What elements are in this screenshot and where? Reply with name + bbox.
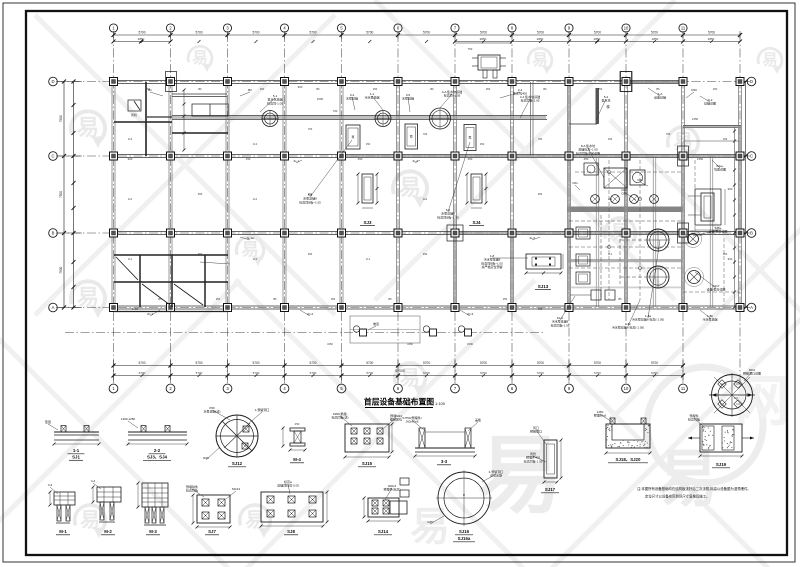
svg-text:定位尺寸以设备实际到货尺寸复核后施工。: 定位尺寸以设备实际到货尺寸复核后施工。 xyxy=(645,494,709,499)
svg-text:JC-1: JC-1 xyxy=(147,312,154,316)
svg-text:C: C xyxy=(750,154,753,159)
axis grid dash-dot lines xyxy=(113,33,115,384)
svg-text:JL1: JL1 xyxy=(366,257,371,261)
svg-text:B2: B2 xyxy=(248,88,252,92)
left axis bubbles xyxy=(49,77,58,86)
svg-text:水泵基础: 水泵基础 xyxy=(346,96,358,101)
detail SJ17 xyxy=(544,440,557,478)
svg-text:易: 易 xyxy=(532,51,547,69)
svg-text:150: 150 xyxy=(480,142,485,146)
svg-text:250: 250 xyxy=(295,422,300,426)
detail M-2 xyxy=(97,487,121,502)
svg-text:5700: 5700 xyxy=(196,371,203,375)
svg-text:1:100: 1:100 xyxy=(435,401,446,406)
svg-text:2850: 2850 xyxy=(138,37,145,41)
svg-text:1350: 1350 xyxy=(697,157,704,161)
svg-text:易: 易 xyxy=(245,509,265,531)
svg-text:标高同板: 标高同板 xyxy=(688,417,700,422)
svg-text:SJ15: SJ15 xyxy=(362,461,373,466)
svg-text:易: 易 xyxy=(241,240,259,260)
detail 2-2 SJ3 SJ4 xyxy=(128,431,187,433)
svg-text:设备 泵房详图: 设备 泵房详图 xyxy=(707,287,726,292)
svg-text:700: 700 xyxy=(698,233,703,237)
svg-text:坑底详图: 坑底详图 xyxy=(714,167,726,172)
svg-text:700: 700 xyxy=(333,109,338,113)
svg-text:B5: B5 xyxy=(388,297,392,301)
svg-text:900: 900 xyxy=(128,157,133,161)
protrusion pad above top edge xyxy=(478,55,500,70)
svg-text:标高同B板~1.05: 标高同B板~1.05 xyxy=(299,199,321,204)
svg-text:预留洞口: 预留洞口 xyxy=(530,429,542,434)
svg-text:SJ8: SJ8 xyxy=(287,529,295,534)
svg-text:1-预留洞口: 1-预留洞口 xyxy=(255,407,270,412)
svg-text:2850: 2850 xyxy=(594,37,601,41)
svg-text:5700: 5700 xyxy=(309,31,316,35)
svg-text:污水泵基础8 标高(-1.05): 污水泵基础8 标高(-1.05) xyxy=(632,317,664,322)
svg-text:设备 泵房详图: 设备 泵房详图 xyxy=(709,229,728,234)
svg-text:5700: 5700 xyxy=(423,31,430,35)
svg-text:JL2: JL2 xyxy=(253,197,258,201)
svg-text:5700: 5700 xyxy=(252,361,259,365)
svg-text:5700: 5700 xyxy=(594,361,601,365)
svg-text:5700: 5700 xyxy=(651,31,658,35)
svg-text:5700: 5700 xyxy=(594,31,601,35)
svg-text:易: 易 xyxy=(77,115,99,140)
svg-text:750: 750 xyxy=(468,47,473,51)
extra leader labels xyxy=(352,97,355,110)
svg-text:网: 网 xyxy=(734,370,789,432)
svg-text:易: 易 xyxy=(410,505,450,549)
detail SJ18 SJ20 xyxy=(606,424,650,448)
detail 3-3 xyxy=(415,447,475,449)
svg-text:C61: C61 xyxy=(572,181,578,185)
svg-text:JL2: JL2 xyxy=(608,197,613,201)
svg-text:标高同板不另说明: 标高同板不另说明 xyxy=(576,150,600,155)
svg-text:150: 150 xyxy=(246,157,251,161)
detail SJ19 xyxy=(700,424,742,452)
svg-text:450: 450 xyxy=(198,252,203,256)
svg-text:泵: 泵 xyxy=(410,134,413,139)
svg-text:1500: 1500 xyxy=(467,342,473,346)
svg-text:4-4: 4-4 xyxy=(48,483,53,487)
svg-text:风机: 风机 xyxy=(131,112,137,117)
svg-text:10: 10 xyxy=(624,386,629,391)
svg-text:450: 450 xyxy=(308,192,313,196)
svg-text:57000: 57000 xyxy=(395,369,405,373)
svg-text:C: C xyxy=(51,154,54,159)
svg-text:盖板: 盖板 xyxy=(475,417,481,422)
top axis bubbles xyxy=(109,24,117,32)
svg-text:SJ16a: SJ16a xyxy=(458,536,471,541)
svg-text:SJ12: SJ12 xyxy=(232,461,243,466)
svg-text:5700: 5700 xyxy=(480,371,487,375)
svg-text:垫层: 垫层 xyxy=(45,419,51,424)
bottom axis bubbles xyxy=(109,384,118,393)
svg-text:JC-2: JC-2 xyxy=(307,312,314,316)
svg-text:900: 900 xyxy=(728,187,733,191)
svg-text:螺栓定位: 螺栓定位 xyxy=(390,417,402,422)
watermark xyxy=(35,15,335,315)
svg-text:标高同-1.05: 标高同-1.05 xyxy=(267,100,283,105)
svg-text:JL3: JL3 xyxy=(253,142,258,146)
svg-text:污水泵基础: 污水泵基础 xyxy=(364,95,379,100)
svg-text:700: 700 xyxy=(423,132,428,136)
svg-text:3-3: 3-3 xyxy=(441,459,448,464)
svg-text:1-1: 1-1 xyxy=(73,448,80,453)
svg-text:B6: B6 xyxy=(430,87,434,91)
svg-text:SJ19: SJ19 xyxy=(716,462,727,467)
svg-text:B6: B6 xyxy=(656,87,660,91)
svg-text:5700: 5700 xyxy=(480,361,487,365)
svg-text:M-3: M-3 xyxy=(149,529,157,534)
svg-text:5700: 5700 xyxy=(309,361,316,365)
svg-text:设备基础: 设备基础 xyxy=(654,95,666,100)
detail M-1 xyxy=(54,492,75,505)
svg-text:JL3: JL3 xyxy=(128,137,133,141)
svg-text:M-4: M-4 xyxy=(293,457,301,462)
svg-text:集水坑: 集水坑 xyxy=(601,98,610,103)
svg-text:JL-2: JL-2 xyxy=(412,159,418,163)
svg-text:5700: 5700 xyxy=(537,361,544,365)
canopy columns xyxy=(360,329,367,336)
svg-text:5700: 5700 xyxy=(366,361,373,365)
svg-text:泵: 泵 xyxy=(351,134,354,139)
svg-text:4-4: 4-4 xyxy=(91,479,96,483)
svg-text:2850: 2850 xyxy=(480,37,487,41)
svg-text:900: 900 xyxy=(728,257,733,261)
svg-text:JL2: JL2 xyxy=(423,197,428,201)
svg-text:水泵基础: 水泵基础 xyxy=(402,96,414,101)
svg-text:D: D xyxy=(51,79,54,84)
svg-text:900: 900 xyxy=(298,85,303,89)
svg-text:250: 250 xyxy=(713,87,718,91)
dimension lines xyxy=(114,34,741,36)
svg-text:1350: 1350 xyxy=(692,117,699,121)
svg-text:5700: 5700 xyxy=(252,31,259,35)
svg-text:450: 450 xyxy=(468,157,473,161)
svg-text:B6: B6 xyxy=(543,87,547,91)
svg-text:M-1: M-1 xyxy=(59,529,67,534)
svg-text:坡道: 坡道 xyxy=(373,321,379,326)
svg-text:250: 250 xyxy=(216,297,221,301)
svg-text:详见水施: 详见水施 xyxy=(490,473,502,478)
svg-text:2850: 2850 xyxy=(537,37,544,41)
svg-text:250: 250 xyxy=(486,87,491,91)
detail 1-1 SJ1 xyxy=(54,431,99,433)
svg-text:J60x60x6: J60x60x6 xyxy=(406,420,419,424)
svg-text:JL-1a: JL-1a xyxy=(246,236,254,240)
svg-text:450: 450 xyxy=(198,192,203,196)
plan leader labels xyxy=(260,98,275,112)
svg-text:并严格定位预留: 并严格定位预留 xyxy=(481,264,502,269)
svg-text:SJ3: SJ3 xyxy=(363,220,372,225)
detail SJ15 xyxy=(345,424,389,452)
svg-text:C25: C25 xyxy=(427,520,433,524)
svg-text:JL1: JL1 xyxy=(608,252,613,256)
svg-text:JL-1: JL-1 xyxy=(293,159,299,163)
svg-text:5700: 5700 xyxy=(708,31,715,35)
svg-text:1+50: 1+50 xyxy=(132,307,139,311)
svg-text:泵: 泵 xyxy=(468,135,471,140)
svg-text:B: B xyxy=(52,231,55,236)
equipment pads below mid beam xyxy=(346,125,360,149)
svg-text:基础顶标高-0.05: 基础顶标高-0.05 xyxy=(277,483,299,488)
detail SJ7 xyxy=(197,495,230,523)
svg-text:5700: 5700 xyxy=(651,361,658,365)
svg-text:基础详图: 基础详图 xyxy=(704,101,716,106)
svg-text:5700: 5700 xyxy=(310,371,317,375)
svg-text:标高同板: 标高同板 xyxy=(186,488,198,493)
svg-text:5700: 5700 xyxy=(195,31,202,35)
svg-text:250: 250 xyxy=(260,87,265,91)
minor dim ticks xyxy=(141,40,144,43)
svg-text:SJ1: SJ1 xyxy=(72,455,80,460)
svg-text:450: 450 xyxy=(358,157,363,161)
svg-text:1250.1250: 1250.1250 xyxy=(121,417,136,421)
svg-text:标高同板(详): 标高同板(详) xyxy=(332,415,349,420)
svg-text:C60: C60 xyxy=(621,192,627,196)
svg-text:5700: 5700 xyxy=(195,361,202,365)
svg-text:450: 450 xyxy=(423,252,428,256)
svg-text:JL2: JL2 xyxy=(128,197,133,201)
svg-text:易: 易 xyxy=(80,509,100,531)
svg-text:5700: 5700 xyxy=(537,31,544,35)
svg-text:250: 250 xyxy=(373,87,378,91)
detail M-3 xyxy=(142,483,168,507)
svg-text:150: 150 xyxy=(608,137,613,141)
svg-text:易: 易 xyxy=(77,285,99,310)
svg-text:D: D xyxy=(750,79,753,84)
svg-text:5700: 5700 xyxy=(423,361,430,365)
svg-text:首层设备基础布置图: 首层设备基础布置图 xyxy=(364,397,434,407)
svg-text:SJ13: SJ13 xyxy=(538,284,549,289)
hatched beam fills xyxy=(626,81,683,83)
svg-text:450: 450 xyxy=(308,252,313,256)
svg-text:SJ16: SJ16 xyxy=(459,529,470,534)
pads SJ3 SJ4 xyxy=(362,174,373,203)
svg-text:700: 700 xyxy=(666,132,671,136)
building beams xyxy=(113,80,684,82)
svg-text:5700: 5700 xyxy=(366,371,373,375)
svg-text:预留洞口详图: 预留洞口详图 xyxy=(743,371,761,376)
svg-text:标高同板-1.05: 标高同板-1.05 xyxy=(521,98,540,103)
svg-text:标高同板-1.05: 标高同板-1.05 xyxy=(551,322,570,327)
svg-text:B6: B6 xyxy=(198,87,202,91)
svg-text:5700: 5700 xyxy=(480,31,487,35)
detail SJ16 SJ16a xyxy=(438,472,490,524)
equipment cluster xyxy=(591,195,600,204)
svg-text:易: 易 xyxy=(399,175,421,200)
svg-text:A: A xyxy=(52,305,55,310)
svg-text:450: 450 xyxy=(538,192,543,196)
svg-text:250: 250 xyxy=(503,297,508,301)
manhole circles on mid beam xyxy=(262,111,278,127)
svg-text:3150: 3150 xyxy=(327,342,333,346)
pad SJ13 xyxy=(526,254,561,269)
svg-text:5700: 5700 xyxy=(594,371,601,375)
svg-text:5700: 5700 xyxy=(138,361,145,365)
svg-text:5700: 5700 xyxy=(366,31,373,35)
svg-text:2850: 2850 xyxy=(708,37,715,41)
svg-text:SJ4: SJ4 xyxy=(472,220,481,225)
detail SJ12 xyxy=(216,415,258,457)
svg-text:SJ14: SJ14 xyxy=(378,529,389,534)
svg-text:5700: 5700 xyxy=(537,371,544,375)
svg-text:11: 11 xyxy=(681,386,686,391)
svg-text:污水泵基础8 标高(-1.05): 污水泵基础8 标高(-1.05) xyxy=(612,325,644,330)
svg-text:7500: 7500 xyxy=(59,266,63,273)
svg-text:250: 250 xyxy=(146,87,151,91)
svg-text:5700: 5700 xyxy=(651,371,658,375)
svg-text:B6: B6 xyxy=(316,87,320,91)
svg-text:JL1: JL1 xyxy=(128,257,133,261)
svg-text:标高同B板~1.05: 标高同B板~1.05 xyxy=(437,214,459,219)
svg-text:5700: 5700 xyxy=(139,371,146,375)
svg-text:易: 易 xyxy=(192,49,207,67)
svg-text:MC24: MC24 xyxy=(232,487,240,491)
svg-text:450: 450 xyxy=(584,157,589,161)
bottom-left rooms xyxy=(114,254,228,256)
svg-text:标高同~1.05: 标高同~1.05 xyxy=(444,93,461,98)
svg-text:JC-3: JC-3 xyxy=(467,312,474,316)
svg-text:5700: 5700 xyxy=(423,371,430,375)
svg-text:2-2: 2-2 xyxy=(154,448,161,453)
svg-text:700: 700 xyxy=(308,127,313,131)
svg-text:3150: 3150 xyxy=(407,342,413,346)
svg-text:污水泵基础: 污水泵基础 xyxy=(702,317,717,322)
svg-text:B5: B5 xyxy=(618,297,622,301)
svg-text:B5: B5 xyxy=(158,297,162,301)
detail M-4 xyxy=(290,428,305,431)
svg-text:标高同板-1.05: 标高同板-1.05 xyxy=(524,458,543,463)
svg-text:5700: 5700 xyxy=(253,371,260,375)
svg-text:150: 150 xyxy=(723,137,728,141)
svg-text:1500: 1500 xyxy=(317,97,324,101)
svg-text:易: 易 xyxy=(762,51,777,69)
ramp outline xyxy=(350,316,420,343)
svg-text:10: 10 xyxy=(624,26,629,31)
stair wall xyxy=(596,88,600,124)
svg-text:水泵基础(详): 水泵基础(详) xyxy=(204,409,221,414)
svg-text:注:本图所有设备基础均在结构板浇好后二次浇筑,标高以设备图为: 注:本图所有设备基础均在结构板浇好后二次浇筑,标高以设备图为准预埋件。 xyxy=(637,486,751,491)
pipe dashed lines xyxy=(608,160,610,300)
svg-text:SJ7: SJ7 xyxy=(208,529,216,534)
svg-text:A: A xyxy=(750,305,753,310)
svg-text:11: 11 xyxy=(681,26,686,31)
svg-text:450: 450 xyxy=(538,307,543,311)
svg-text:250: 250 xyxy=(331,297,336,301)
column pads xyxy=(166,72,177,92)
right axis bubbles xyxy=(747,77,756,86)
svg-text:800: 800 xyxy=(734,396,739,400)
detail SJ8 xyxy=(261,492,323,522)
svg-text:M-2: M-2 xyxy=(104,529,112,534)
top-left rooms xyxy=(145,82,147,156)
svg-text:250: 250 xyxy=(598,87,603,91)
svg-text:B: B xyxy=(750,231,753,236)
svg-text:预埋60x6: 预埋60x6 xyxy=(594,413,607,418)
svg-text:700: 700 xyxy=(538,137,543,141)
svg-text:JL1: JL1 xyxy=(253,257,258,261)
detail SJ14 xyxy=(368,498,399,517)
svg-text:R25: R25 xyxy=(203,456,209,460)
svg-text:7500: 7500 xyxy=(59,115,63,122)
svg-text:D30: D30 xyxy=(691,88,697,92)
pad at axis 10 top xyxy=(620,72,632,92)
svg-text:150: 150 xyxy=(366,142,371,146)
svg-text:B5: B5 xyxy=(273,297,277,301)
svg-text:7500: 7500 xyxy=(59,191,63,198)
svg-text:5700: 5700 xyxy=(138,31,145,35)
small pads left of SJ16 xyxy=(400,478,409,485)
svg-text:预埋件(标高): 预埋件(标高) xyxy=(384,487,401,492)
columns at grid intersections xyxy=(110,78,118,86)
svg-text:SJ17: SJ17 xyxy=(545,487,556,492)
svg-text:JL-3: JL-3 xyxy=(529,236,535,240)
svg-text:450: 450 xyxy=(723,252,728,256)
detail circle pit xyxy=(712,375,753,416)
